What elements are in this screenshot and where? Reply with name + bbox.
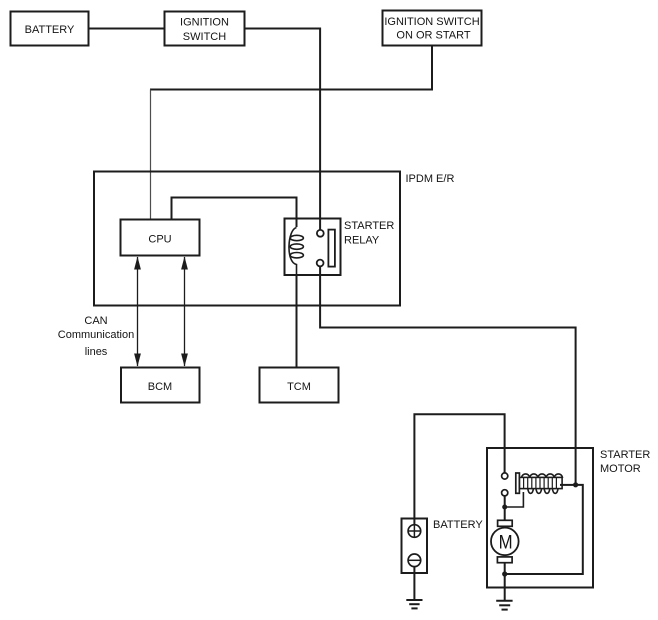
svg-text:BCM: BCM [148,381,172,393]
CAN bus arrow 2 (CPU-BCM) [181,257,188,367]
relay contact pin lower [317,260,324,267]
BCM box [121,368,200,403]
ground G1 (battery) [406,600,422,608]
svg-text:TCM: TCM [287,381,311,393]
wire ignition-on signal toward CPU [150,46,432,90]
node junction J1 (contact/motor/coil) [502,505,507,510]
battery positive terminal [408,525,421,538]
wire battery top pin [413,518,415,526]
wire battery B2 positive to starter motor contact [414,414,504,519]
wire relay coil to TCM [296,276,298,367]
svg-text:SWITCH: SWITCH [183,31,226,43]
svg-text:IGNITION: IGNITION [180,17,229,29]
solenoid contact pin lower [502,490,508,496]
CPU U1 box [121,220,200,256]
wire junction J1 to motor [504,507,506,520]
svg-text:MOTOR: MOTOR [600,463,641,475]
wire battery B1 to ignition switch [89,28,164,30]
ignition switch S1 box [165,12,245,46]
wire junction to solenoid coil start [505,492,524,507]
svg-text:Communication: Communication [58,329,134,341]
svg-text:lines: lines [85,346,108,358]
wire CPU to relay coil [172,198,297,228]
svg-text:BATTERY: BATTERY [433,519,483,531]
wire motor return loop [505,485,583,574]
svg-text:ON OR START: ON OR START [396,30,470,42]
motor M armature [491,520,519,562]
wire motor bottom to junction J3 [504,563,506,574]
solenoid plunger bar [516,473,520,493]
relay coil winding [289,228,297,277]
CAN bus arrow 1 (CPU-BCM) [134,257,141,367]
battery negative terminal [408,554,421,567]
IPDM E/R enclosure [94,172,454,306]
wire lower contact to junction [504,496,506,508]
relay K1 starter relay [285,219,395,277]
svg-text:STARTER: STARTER [600,449,650,461]
svg-text:IGNITION SWITCH: IGNITION SWITCH [384,16,479,28]
node junction J2 (coil / relay feed) [573,482,578,487]
starter motor enclosure [487,448,650,588]
svg-text:CPU: CPU [148,234,171,246]
svg-text:RELAY: RELAY [344,235,380,247]
wire relay contact to starter motor solenoid [320,266,575,482]
wire battery negative to ground [413,567,415,600]
svg-text:IPDM E/R: IPDM E/R [406,173,455,185]
wire ignition switch to starter relay contact [245,29,320,230]
wire coil to junction J2 [560,484,574,486]
battery B1 box (top left) [11,12,89,46]
ignition switch on-or-start signal box [383,11,482,46]
battery B2 (main battery) [402,518,484,573]
relay contact pin upper [317,230,324,237]
svg-text:CAN: CAN [84,315,107,327]
relay contact bar [328,230,335,267]
CAN communication lines label [58,315,134,358]
node junction J3 (motor negative) [502,571,507,576]
wire motor to ground [504,574,506,601]
svg-text:M: M [499,532,513,554]
svg-text:BATTERY: BATTERY [25,24,75,36]
svg-text:STARTER: STARTER [344,220,394,232]
TCM box [260,368,339,403]
ground G2 (starter motor) [496,601,512,610]
solenoid coil L1 [520,474,563,494]
solenoid contact pin upper [502,473,508,479]
wire (thin) node to CPU pin [150,90,152,220]
